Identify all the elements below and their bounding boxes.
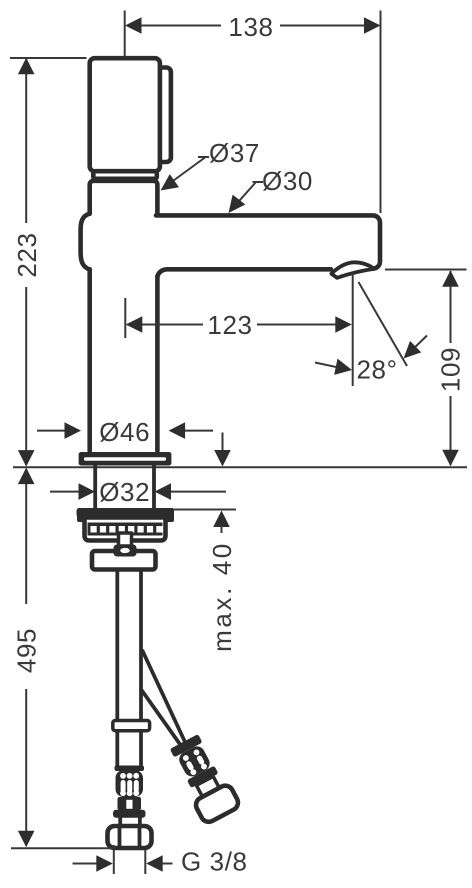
svg-text:123: 123 [207,310,252,340]
water outlet axis line [352,273,354,386]
handle lever tab [158,68,171,163]
hose stem [119,533,132,546]
svg-text:Ø37: Ø37 [209,138,260,168]
hose 1 (vertical) tube [117,570,141,767]
label D32 with arrows [50,477,226,507]
hose 1 collar [113,721,150,731]
hose 1 crimp [113,766,146,828]
label D30 with leader [222,166,313,218]
svg-text:495: 495 [12,628,42,673]
dimension max 40 [174,433,237,652]
hose 2 (diagonal) tube edges [142,651,185,744]
dimension 223 [10,58,87,467]
base escutcheon plate [79,452,172,466]
handle base ring [93,171,157,179]
svg-text:Ø46: Ø46 [99,417,150,447]
dimension 138 [125,11,381,214]
dimension 495 [11,468,112,849]
svg-text:138: 138 [228,12,273,42]
label D37 with leader [156,138,260,197]
hose clip [114,545,137,557]
hose 2 crimp and nut [166,732,241,825]
svg-text:Ø32: Ø32 [99,477,150,507]
svg-text:223: 223 [12,232,42,277]
dimension 109 [385,270,467,467]
angle 28 deg annotation [315,336,427,385]
dimension G 3/8 [73,845,248,877]
svg-text:109: 109 [436,347,466,392]
faucet body column [81,181,158,451]
aerator outlet [332,262,374,278]
connection block [92,551,156,570]
mounting nut [85,518,166,541]
svg-text:Ø30: Ø30 [262,166,313,196]
water stream 28 deg line [359,282,408,366]
countertop line [13,466,467,468]
svg-text:G 3/8: G 3/8 [181,847,248,877]
mounting washer [77,508,175,522]
hose 1 G3/8 nut [108,826,152,848]
threaded shank [95,465,154,508]
label D46 with arrows [37,417,213,447]
svg-text:28°: 28° [357,355,398,385]
dimension 123 [125,298,351,340]
spout [156,215,380,276]
svg-text:max. 40: max. 40 [207,541,237,652]
handle [90,58,160,171]
